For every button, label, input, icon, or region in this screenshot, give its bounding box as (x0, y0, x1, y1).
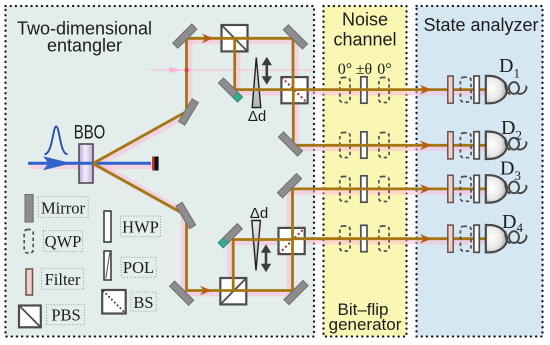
svg-text:Filter: Filter (45, 270, 81, 289)
svg-text:BS: BS (133, 293, 153, 312)
svg-text:HWP: HWP (122, 217, 159, 236)
svg-text:Δd: Δd (250, 205, 268, 222)
svg-text:0°: 0° (338, 61, 352, 78)
svg-text:Δd: Δd (248, 108, 266, 125)
svg-text:4: 4 (517, 220, 524, 235)
svg-text:Mirror: Mirror (41, 199, 85, 218)
svg-text:D: D (499, 55, 513, 77)
svg-text:BBO: BBO (74, 123, 106, 144)
svg-text:D: D (500, 158, 514, 180)
svg-text:PBS: PBS (51, 306, 80, 325)
svg-text:channel: channel (333, 30, 396, 50)
svg-text:0°: 0° (377, 61, 391, 78)
svg-text:3: 3 (515, 168, 522, 183)
svg-text:D: D (501, 117, 515, 139)
svg-text:Noise: Noise (342, 10, 388, 30)
svg-text:QWP: QWP (45, 232, 82, 251)
svg-text:±θ: ±θ (356, 61, 372, 78)
svg-text:2: 2 (516, 128, 523, 143)
svg-text:D: D (502, 211, 516, 233)
svg-text:State analyzer: State analyzer (423, 15, 538, 35)
svg-text:entangler: entangler (47, 36, 122, 56)
svg-text:POL: POL (123, 258, 154, 277)
svg-text:generator: generator (329, 315, 402, 334)
svg-text:1: 1 (514, 66, 521, 81)
